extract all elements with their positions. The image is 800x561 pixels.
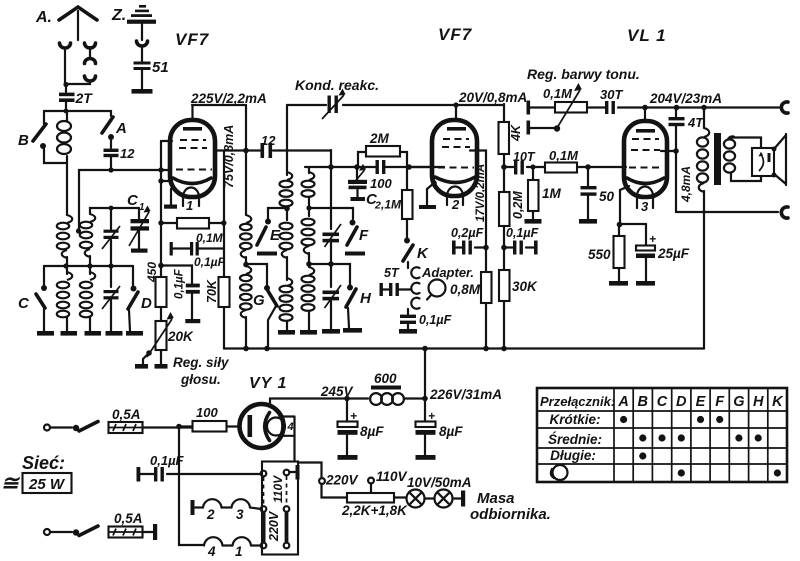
svg-text:2: 2 xyxy=(206,507,215,522)
svg-text:3: 3 xyxy=(236,507,244,522)
svg-text:110V: 110V xyxy=(376,469,408,484)
svg-text:25µF: 25µF xyxy=(657,246,690,261)
svg-text:220V: 220V xyxy=(325,473,359,488)
svg-text:600: 600 xyxy=(374,371,397,386)
svg-text:G: G xyxy=(253,292,265,309)
svg-text:Średnie:: Średnie: xyxy=(548,432,602,447)
svg-text:E: E xyxy=(270,227,281,244)
svg-text:12: 12 xyxy=(120,146,135,161)
svg-text:2,2K+1,8K: 2,2K+1,8K xyxy=(341,503,408,518)
svg-text:odbiornika.: odbiornika. xyxy=(470,506,551,523)
svg-text:Z.: Z. xyxy=(111,7,126,24)
svg-text:4K: 4K xyxy=(509,124,523,142)
svg-text:VL 1: VL 1 xyxy=(627,26,667,45)
svg-text:2: 2 xyxy=(451,197,460,212)
svg-text:8µF: 8µF xyxy=(360,424,384,439)
svg-text:Sieć:: Sieć: xyxy=(22,453,65,473)
svg-text:0,1µF: 0,1µF xyxy=(150,453,185,468)
svg-text:Długie:: Długie: xyxy=(550,448,596,463)
svg-text:+: + xyxy=(350,409,357,423)
svg-text:17V/0,2mA: 17V/0,2mA xyxy=(475,164,487,222)
svg-text:550: 550 xyxy=(588,247,611,262)
svg-text:25 W: 25 W xyxy=(28,476,66,493)
svg-text:VY 1: VY 1 xyxy=(249,375,287,392)
svg-text:C: C xyxy=(657,394,668,410)
svg-text:B: B xyxy=(638,394,648,410)
svg-text:1M: 1M xyxy=(542,186,562,201)
svg-text:3: 3 xyxy=(641,199,649,214)
svg-text:2M: 2M xyxy=(369,131,390,146)
svg-text:100: 100 xyxy=(370,176,392,191)
svg-text:E: E xyxy=(696,394,707,410)
svg-text:≅: ≅ xyxy=(1,472,21,495)
svg-text:+: + xyxy=(428,409,435,423)
svg-text:1: 1 xyxy=(186,198,193,213)
svg-text:0,1µF: 0,1µF xyxy=(419,313,452,327)
svg-text:+: + xyxy=(649,232,656,246)
svg-text:8µF: 8µF xyxy=(439,424,463,439)
svg-text:VF7: VF7 xyxy=(175,30,210,49)
svg-text:0,1M: 0,1M xyxy=(543,86,573,101)
svg-text:C: C xyxy=(18,295,30,312)
svg-text:A: A xyxy=(617,394,628,410)
svg-text:110V: 110V xyxy=(271,475,285,503)
svg-text:4,8mA: 4,8mA xyxy=(679,166,693,203)
svg-text:0,8M: 0,8M xyxy=(450,282,481,297)
svg-text:50: 50 xyxy=(599,189,615,204)
svg-text:2T: 2T xyxy=(75,90,94,106)
svg-text:225V/2,2mA: 225V/2,2mA xyxy=(190,91,267,106)
svg-text:204V/23mA: 204V/23mA xyxy=(649,91,722,106)
svg-text:głosu.: głosu. xyxy=(180,372,221,387)
svg-text:0,5A: 0,5A xyxy=(112,407,141,422)
svg-text:Krótkie:: Krótkie: xyxy=(549,412,600,427)
svg-text:450: 450 xyxy=(145,262,159,283)
svg-text:B: B xyxy=(18,132,29,149)
svg-text:0,1µF: 0,1µF xyxy=(194,255,226,269)
svg-text:4: 4 xyxy=(287,421,294,433)
svg-text:1: 1 xyxy=(235,544,243,559)
svg-text:30T: 30T xyxy=(600,87,623,102)
svg-text:Masa: Masa xyxy=(477,490,515,507)
svg-text:10T: 10T xyxy=(513,150,536,164)
svg-text:G: G xyxy=(733,394,744,410)
svg-text:220V: 220V xyxy=(267,510,281,542)
svg-text:F: F xyxy=(359,227,369,244)
svg-text:245V: 245V xyxy=(320,384,354,399)
svg-text:20V/0,8mA: 20V/0,8mA xyxy=(458,90,527,105)
svg-text:0,2M: 0,2M xyxy=(511,191,525,219)
svg-text:K: K xyxy=(772,394,784,410)
svg-text:0,1µF: 0,1µF xyxy=(174,268,186,299)
svg-text:Przełącznik:: Przełącznik: xyxy=(540,394,615,409)
svg-text:F: F xyxy=(715,394,725,410)
svg-text:4T: 4T xyxy=(687,115,704,130)
svg-text:5T: 5T xyxy=(384,266,400,280)
svg-text:70K: 70K xyxy=(205,279,219,303)
svg-text:Reg. barwy tonu.: Reg. barwy tonu. xyxy=(527,66,640,82)
svg-text:0,1M: 0,1M xyxy=(549,148,579,163)
svg-text:0,2µF: 0,2µF xyxy=(451,226,484,240)
svg-text:D: D xyxy=(141,295,152,312)
svg-text:1: 1 xyxy=(139,202,145,213)
svg-text:D: D xyxy=(676,394,687,410)
svg-text:0,5A: 0,5A xyxy=(114,511,143,526)
svg-text:0,1µF: 0,1µF xyxy=(506,226,539,240)
svg-text:Adapter.: Adapter. xyxy=(421,265,474,280)
svg-text:A.: A. xyxy=(35,9,52,26)
svg-text:226V/31mA: 226V/31mA xyxy=(429,387,502,402)
svg-text:,1M: ,1M xyxy=(380,198,402,212)
svg-text:Reg. siły: Reg. siły xyxy=(173,355,230,370)
svg-text:0,1M: 0,1M xyxy=(196,231,224,245)
svg-text:100: 100 xyxy=(196,405,218,420)
svg-text:H: H xyxy=(753,394,764,410)
svg-text:51: 51 xyxy=(152,59,169,76)
svg-text:VF7: VF7 xyxy=(438,25,473,44)
svg-text:C: C xyxy=(127,192,139,209)
svg-text:K: K xyxy=(417,245,429,262)
svg-text:H: H xyxy=(360,290,372,307)
svg-text:12: 12 xyxy=(261,133,276,148)
svg-text:10V/50mA: 10V/50mA xyxy=(407,475,472,490)
svg-text:30K: 30K xyxy=(512,279,538,294)
svg-text:20K: 20K xyxy=(167,329,194,344)
svg-text:2: 2 xyxy=(374,200,381,212)
svg-text:A: A xyxy=(115,120,127,137)
svg-text:4: 4 xyxy=(207,544,216,559)
svg-text:Kond. reakc.: Kond. reakc. xyxy=(295,77,379,93)
